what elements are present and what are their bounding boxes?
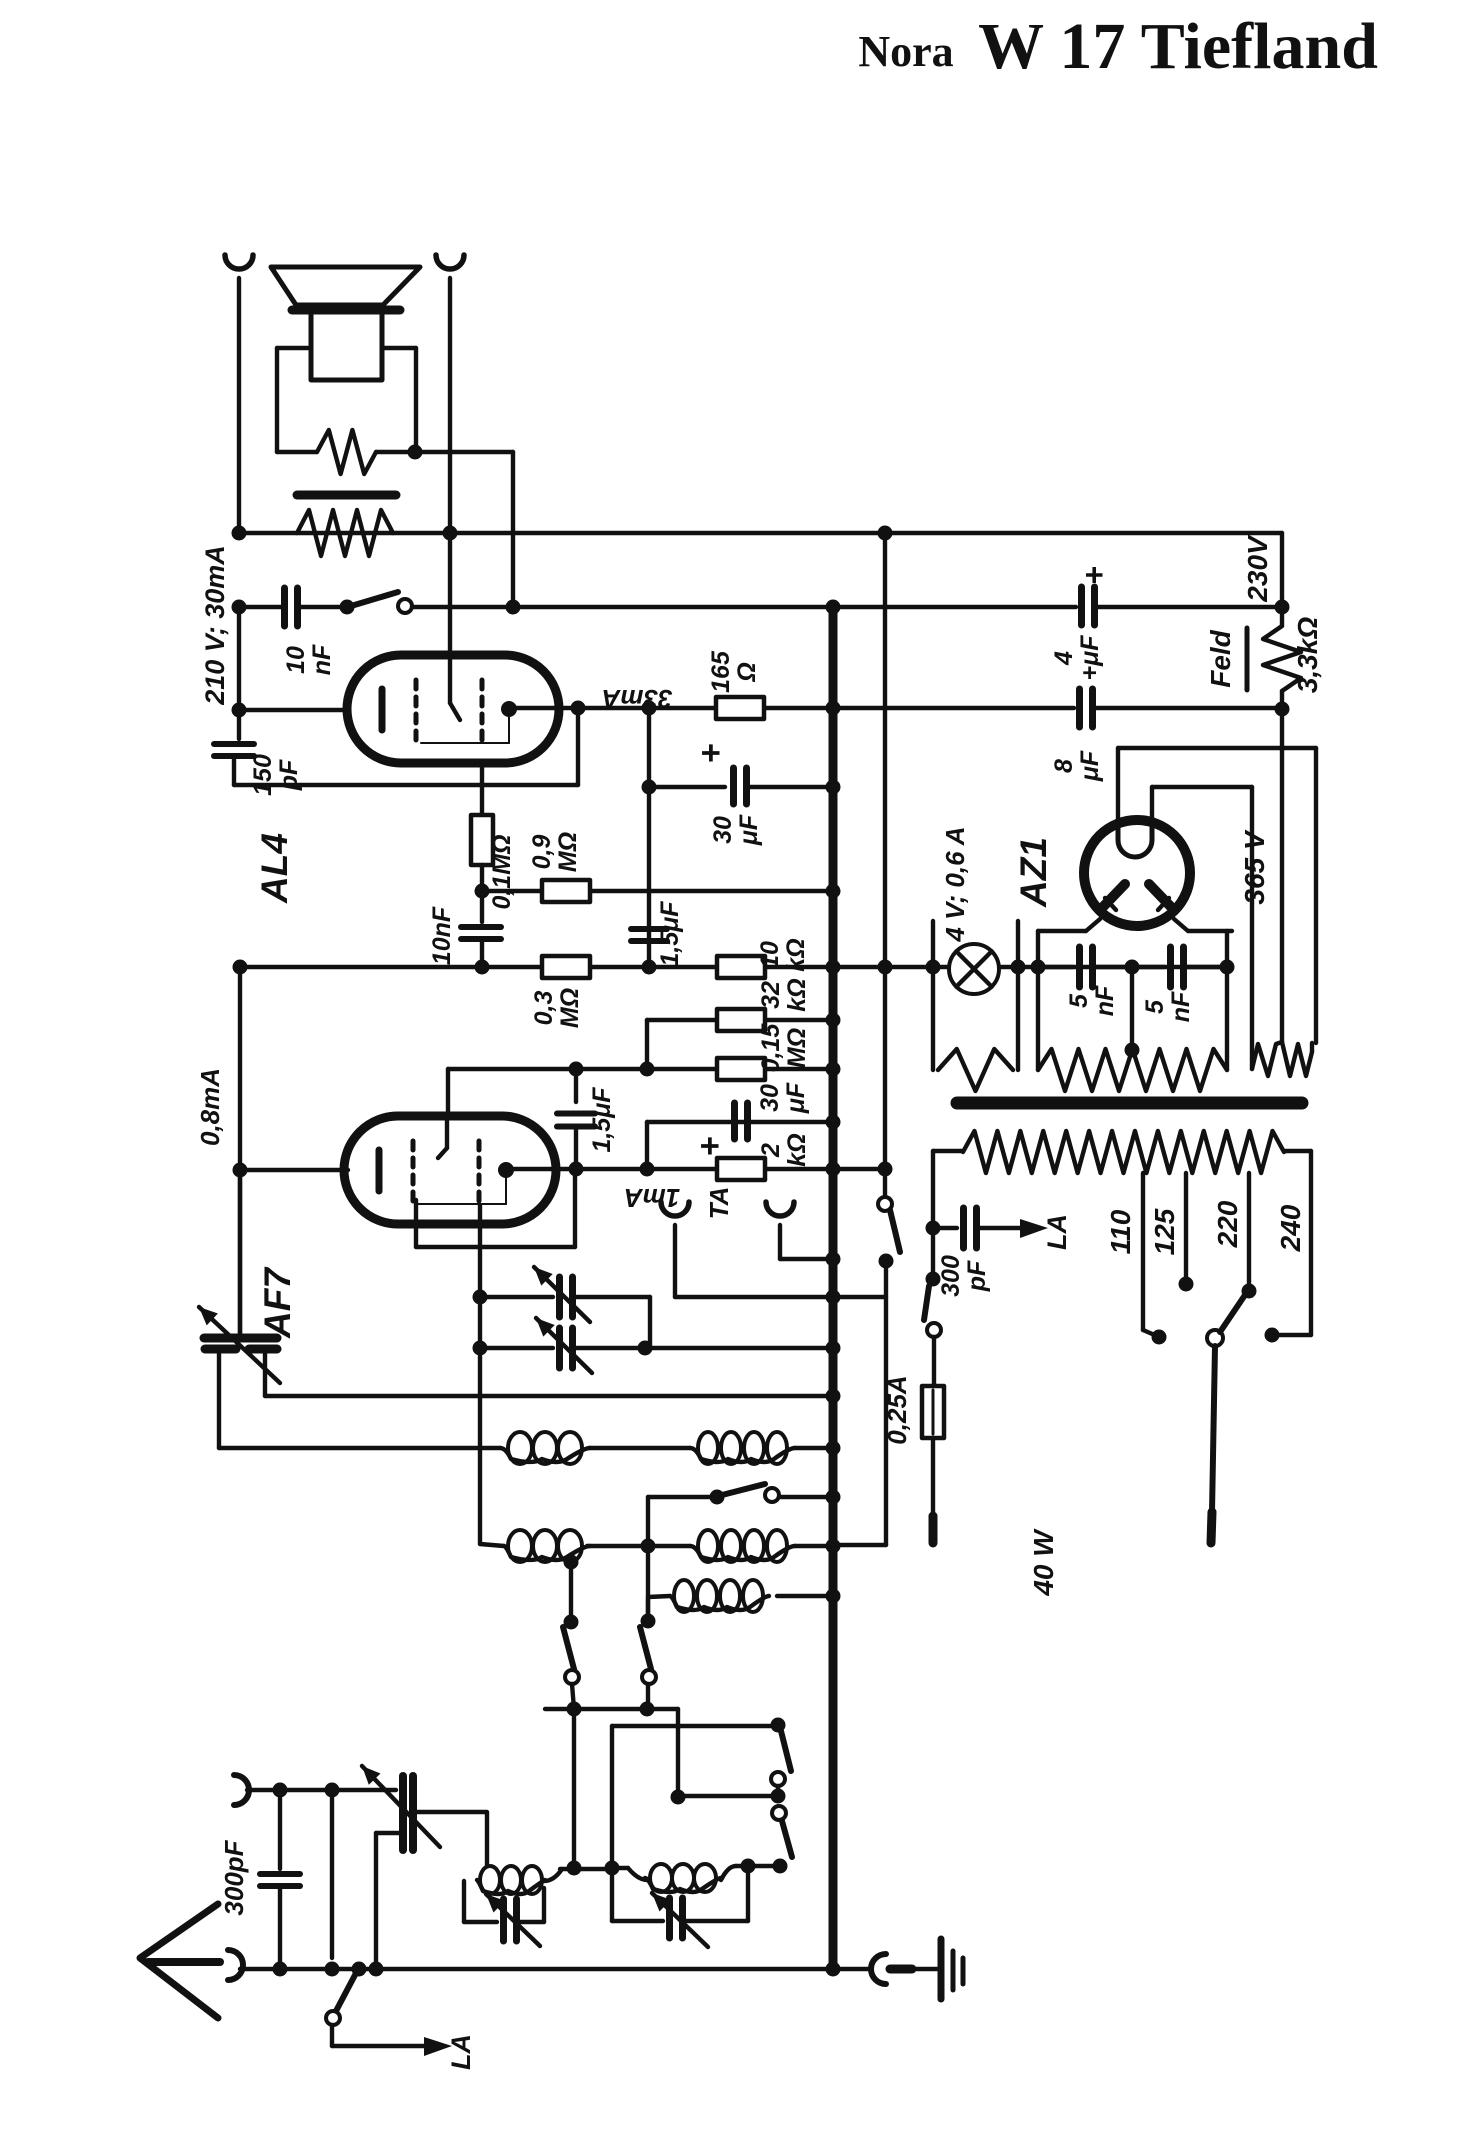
wire 5nF mid drop bbox=[1130, 967, 1134, 1050]
wire cathode rail 365V loop outer bbox=[1118, 746, 1316, 750]
tap 110 bbox=[1141, 1173, 1145, 1330]
resistor field winding (hum coil) bbox=[297, 510, 393, 556]
junction feed lamp bbox=[878, 960, 893, 975]
svg-text:Feld: Feld bbox=[1205, 629, 1236, 687]
wire antenna coil out bbox=[560, 1867, 612, 1871]
wire row2 to bus bbox=[795, 1544, 833, 1548]
junction TA bus bbox=[826, 1252, 841, 1267]
wire box top bbox=[612, 1724, 773, 1728]
junction 150 pF bbox=[232, 600, 247, 615]
tap 125 bbox=[1184, 1173, 1188, 1284]
fuse 0,25 A bbox=[932, 1337, 936, 1386]
AZ1 bracket left bbox=[1036, 931, 1040, 1070]
svg-text:300pF: 300pF bbox=[219, 1839, 249, 1915]
wire 0,15M rail bbox=[448, 1067, 833, 1071]
capacitor 8 uF bbox=[833, 706, 1074, 710]
junction box coil left bbox=[605, 1861, 620, 1876]
bus main chassis bbox=[829, 605, 838, 1969]
lamp bracket left bbox=[931, 921, 935, 1070]
svg-text:30μF: 30μF bbox=[756, 1082, 810, 1114]
wire AZ1 filament up bbox=[1150, 787, 1154, 823]
wire AZ1 cathode up bbox=[1116, 748, 1120, 823]
svg-text:0,9MΩ: 0,9MΩ bbox=[528, 832, 582, 872]
capacitor 5 nF right bbox=[1167, 947, 1174, 987]
junction aerial a bbox=[273, 1783, 288, 1798]
junction lamp left bbox=[926, 960, 941, 975]
ground stub bbox=[890, 1965, 912, 1974]
AZ1 legs bbox=[1086, 919, 1100, 931]
svg-text:+: + bbox=[692, 743, 730, 763]
resistor 32 kOhm bbox=[717, 1009, 765, 1031]
tube AZ1 bbox=[1084, 820, 1190, 926]
wire coil row1 rail bbox=[219, 1446, 500, 1450]
terminal aerial top bbox=[234, 1775, 249, 1805]
junction box coil right bbox=[741, 1859, 756, 1874]
junction lamp right bbox=[1011, 960, 1026, 975]
wire grid rail 0,3M bbox=[240, 965, 833, 969]
arrow LA right bbox=[1020, 1219, 1048, 1238]
junction anode/30uF branch bbox=[642, 701, 657, 716]
ground symbol bbox=[938, 1939, 945, 1999]
trimmer capacitor antenna bbox=[399, 1776, 407, 1850]
capacitor 30 uF (AL4 cathode) bbox=[730, 768, 737, 804]
mains pin left bbox=[929, 1516, 938, 1543]
terminal speaker left bbox=[225, 255, 253, 269]
switch mains (on volume control) bbox=[878, 1197, 892, 1211]
wire AL4 grid bbox=[237, 607, 241, 710]
switch box 2 bbox=[772, 1806, 786, 1820]
svg-text:3,3kΩ: 3,3kΩ bbox=[1292, 617, 1323, 693]
wire feedback to switch line bbox=[415, 450, 513, 454]
svg-text:30μF: 30μF bbox=[709, 814, 763, 846]
junction aerial b bbox=[325, 1783, 340, 1798]
wire row1 mid bbox=[590, 1446, 690, 1450]
junction 8uF bbox=[1275, 702, 1290, 717]
wire feed 885 bbox=[883, 533, 887, 1197]
svg-text:+: + bbox=[1076, 566, 1112, 585]
wire box mid rail bbox=[678, 1794, 778, 1798]
svg-text:0,8mA: 0,8mA bbox=[195, 1068, 225, 1146]
wire antenna ground rail bbox=[240, 1967, 833, 1971]
winding primary bbox=[933, 1149, 963, 1153]
capacitor 10 nF bbox=[281, 588, 288, 626]
junction ground rail c bbox=[369, 1962, 384, 1977]
wire B+ top rail 210V bbox=[239, 531, 1282, 535]
wire 30uF branch bbox=[647, 708, 651, 966]
tap 240 bbox=[1309, 1151, 1313, 1335]
capacitor 30 uF (AF7 anode decoupling) bbox=[731, 1103, 738, 1139]
coil row3 bbox=[646, 1599, 650, 1621]
bus junction 787 bbox=[826, 780, 841, 795]
terminal antenna bbox=[228, 1950, 243, 1980]
antenna coil bbox=[485, 1813, 489, 1866]
wire AF7 grid top lead bbox=[446, 1069, 450, 1116]
svg-text:1,5μF: 1,5μF bbox=[656, 901, 684, 967]
bracket trimmers bbox=[648, 1297, 652, 1348]
bus junction 1020 bbox=[826, 1013, 841, 1028]
capacitor 10 nF (coupling) bbox=[461, 924, 501, 930]
wire 30uF AF7 rail bbox=[647, 1120, 833, 1124]
junction padder top bbox=[473, 1290, 488, 1305]
junction 1,5uF top bbox=[642, 960, 657, 975]
junction 5nF right bbox=[1220, 960, 1235, 975]
wire box coil rail bbox=[612, 1866, 628, 1870]
resistor field 3,3k bbox=[1263, 626, 1301, 691]
junction trimmer rail bus bbox=[826, 1341, 841, 1356]
resistor lamp shunt winding bbox=[938, 1049, 1013, 1091]
wire AF7 grid rail left bbox=[238, 967, 242, 1337]
resistor 0,3 MOhm bbox=[542, 956, 590, 978]
antenna coil trimmer bbox=[462, 1881, 466, 1922]
trimmer capacitor 2 bbox=[556, 1328, 563, 1368]
wire row3 to bus bbox=[777, 1594, 833, 1598]
junction row2 mid bbox=[641, 1539, 656, 1554]
junction 0,15M/32k bbox=[640, 1062, 655, 1077]
bus junction 891 bbox=[826, 884, 841, 899]
svg-text:TA: TA bbox=[704, 1187, 734, 1220]
capacitor 1,5 uF (AF7) bbox=[574, 1069, 578, 1102]
svg-text:40 W: 40 W bbox=[1028, 1528, 1059, 1597]
junction 4uF bbox=[1275, 600, 1290, 615]
winding HV outer small bbox=[1282, 1042, 1312, 1076]
svg-text:4 V; 0,6 A: 4 V; 0,6 A bbox=[940, 826, 970, 942]
resistor 0,9 MOhm bbox=[542, 880, 590, 902]
output transformer frame bbox=[277, 346, 308, 350]
svg-text:Nora: Nora bbox=[858, 27, 953, 76]
AZ1 bracket right bbox=[1225, 931, 1229, 1070]
junction 5nF left bbox=[1031, 960, 1046, 975]
tuning capacitor arrow bbox=[199, 1307, 280, 1383]
junction feed top bbox=[878, 526, 893, 541]
switch antenna bbox=[352, 1962, 367, 1977]
wire filament rail bbox=[1152, 785, 1252, 789]
junction feed switch bbox=[878, 1162, 893, 1177]
wire AF7 cathode hook bbox=[414, 1200, 418, 1247]
junction antenna coil/switch drop bbox=[567, 1861, 582, 1876]
svg-text:0,1MΩ: 0,1MΩ bbox=[488, 834, 516, 909]
svg-text:300pF: 300pF bbox=[937, 1255, 991, 1297]
junction 0,9M bbox=[475, 884, 490, 899]
wire bandswitch row bbox=[648, 1495, 712, 1499]
capacitor 300 pF mains bbox=[933, 1226, 957, 1230]
junction AVC bus bbox=[826, 1389, 841, 1404]
svg-text:125: 125 bbox=[1149, 1208, 1180, 1255]
wire tuning bottom left lead bbox=[217, 1353, 221, 1448]
svg-text:1mA: 1mA bbox=[624, 1183, 680, 1213]
switch box 1 bbox=[771, 1718, 786, 1733]
wire switch drop bbox=[572, 1709, 576, 1868]
wire switch rail bbox=[239, 605, 281, 609]
arrow LA bbox=[424, 2037, 452, 2056]
junction switch rail / feedback bbox=[506, 600, 521, 615]
wire 32k rail bbox=[647, 1018, 833, 1022]
switch band A bbox=[564, 1555, 579, 1570]
bus junction 607 bbox=[826, 600, 841, 615]
wire padder1 bbox=[480, 1295, 553, 1299]
svg-text:220: 220 bbox=[1212, 1200, 1243, 1248]
trimmer capacitor 1 bbox=[556, 1277, 563, 1317]
tap 220 bbox=[1247, 1173, 1251, 1291]
switch tone bbox=[340, 600, 355, 615]
wire antenna trimmer lower tap bbox=[376, 1831, 400, 1835]
wire AL4 anode bbox=[509, 706, 833, 710]
svg-text:210 V; 30mA: 210 V; 30mA bbox=[200, 545, 230, 706]
resistor 10 kOhm bbox=[717, 956, 765, 978]
antenna bbox=[140, 1904, 218, 2018]
wire tuning bottom right lead bbox=[263, 1353, 267, 1396]
coil row1 right bbox=[690, 1448, 795, 1462]
pilot lamp 4V 0,6A bbox=[949, 944, 999, 994]
svg-text:AF7: AF7 bbox=[257, 1266, 298, 1339]
tube AL4 bbox=[347, 655, 559, 763]
coil box bbox=[645, 1878, 721, 1892]
wire TA left rail bbox=[675, 1295, 886, 1299]
wire box coil right bbox=[721, 1866, 736, 1880]
wire heater rail bbox=[833, 965, 1227, 969]
svg-text:AL4: AL4 bbox=[254, 833, 295, 904]
junction 5nF mid bbox=[1125, 960, 1140, 975]
junction padder lower bbox=[473, 1341, 488, 1356]
junction AF7 grid bbox=[233, 1163, 248, 1178]
junction AF7 grid-left corner bbox=[233, 960, 248, 975]
AZ1 anode left bbox=[1100, 884, 1125, 910]
wire antenna trimmer out bbox=[416, 1810, 487, 1814]
svg-text:240: 240 bbox=[1275, 1204, 1306, 1252]
coil row2 right bbox=[690, 1546, 795, 1560]
junction AF7 anode net a bbox=[569, 1162, 584, 1177]
capacitor 150 pF bbox=[237, 710, 241, 739]
wire to box inner bbox=[676, 1709, 680, 1797]
corner 230V bbox=[1280, 533, 1284, 626]
wire tuning top to grid bbox=[238, 1170, 242, 1333]
svg-text:0,3MΩ: 0,3MΩ bbox=[530, 988, 584, 1028]
junction TA rail / bus bbox=[826, 1290, 841, 1305]
capacitor 5 nF left bbox=[1038, 965, 1073, 969]
junction box inner bbox=[671, 1790, 686, 1805]
wire box bottom bbox=[612, 1919, 663, 1923]
svg-text:AZ1: AZ1 bbox=[1013, 837, 1054, 908]
antenna feed stub bbox=[148, 1958, 220, 1966]
svg-text:230V: 230V bbox=[1242, 534, 1273, 603]
switch mains left bbox=[926, 1272, 941, 1287]
switch band 1 bbox=[710, 1490, 725, 1505]
bus junction ground bbox=[826, 1962, 841, 1977]
wire AL4 grid-top from terminal bbox=[448, 533, 452, 655]
junction row2 bus bbox=[826, 1539, 841, 1554]
bus junction 708 bbox=[826, 701, 841, 716]
junction ground rail b bbox=[325, 1962, 340, 1977]
resistor 2 kOhm bbox=[717, 1158, 765, 1180]
wire aerial rail bbox=[247, 1788, 396, 1792]
transformer core bbox=[957, 1097, 1302, 1110]
svg-text:LA: LA bbox=[1042, 1214, 1072, 1250]
terminal speaker right bbox=[436, 255, 464, 269]
svg-text:150pF: 150pF bbox=[249, 754, 303, 796]
wire TA right to bus bbox=[780, 1257, 833, 1261]
resistor 0,15 MOhm bbox=[717, 1058, 765, 1080]
wire feed to bus bottom bbox=[833, 1543, 886, 1547]
junction 300pF mains bbox=[926, 1221, 941, 1236]
svg-text:365 V: 365 V bbox=[1239, 829, 1270, 904]
terminal TA left bbox=[661, 1202, 689, 1216]
junction grid rail left bbox=[475, 960, 490, 975]
wire bus to ground terminal bbox=[833, 1967, 871, 1971]
junction filament winding centre bbox=[1125, 1043, 1140, 1058]
capacitor plate bar bbox=[297, 491, 396, 500]
wire AL4 cathode return bbox=[234, 783, 578, 787]
junction B+ speaker terminal bbox=[443, 526, 458, 541]
junction trimmer bracket bbox=[638, 1341, 653, 1356]
switch voltage selector bbox=[1207, 1330, 1223, 1346]
junction sw B bottom bbox=[640, 1702, 655, 1717]
svg-text:0,15MΩ: 0,15MΩ bbox=[757, 1023, 811, 1073]
wire LA out bbox=[332, 2044, 424, 2048]
bus junction 1069 bbox=[826, 1062, 841, 1077]
capacitor 1,5 uF (AL4) bbox=[631, 926, 667, 932]
junction AF7 anode net b bbox=[640, 1162, 655, 1177]
coil row1 left bbox=[500, 1448, 590, 1462]
wire AVC rail bbox=[265, 1394, 833, 1398]
junction bandswitch bus bbox=[826, 1490, 841, 1505]
winding HV right small bbox=[1280, 691, 1284, 1042]
bus junction 967 bbox=[826, 960, 841, 975]
mains pin right bbox=[1211, 1512, 1212, 1543]
wire row2 left lead bbox=[480, 1544, 504, 1546]
svg-text:1,5μF: 1,5μF bbox=[588, 1087, 616, 1153]
wire 0,9M rail bbox=[482, 889, 833, 893]
svg-text:10kΩ: 10kΩ bbox=[756, 938, 810, 971]
winding heater AZ1 bbox=[1038, 1049, 1227, 1091]
terminal TA right bbox=[766, 1202, 794, 1216]
svg-text:33mA: 33mA bbox=[602, 684, 673, 714]
resistor speaker voice-coil shunt bbox=[317, 430, 376, 474]
lamp bracket right bbox=[1016, 921, 1020, 1070]
switch band B bbox=[641, 1614, 656, 1629]
wire mains left bbox=[931, 1151, 935, 1279]
junction ground rail a bbox=[273, 1962, 288, 1977]
terminal ground hook bbox=[871, 1954, 886, 1984]
svg-text:10nF: 10nF bbox=[282, 644, 336, 675]
speaker magnet bbox=[311, 313, 382, 380]
junction AL4 grid bbox=[232, 703, 247, 718]
junction speaker/feedback bbox=[408, 445, 423, 460]
junction row3 bus bbox=[826, 1589, 841, 1604]
bus junction 1169 bbox=[826, 1162, 841, 1177]
capacitor 300 pF antenna bbox=[278, 1790, 282, 1869]
junction anode/cathode-net bbox=[571, 701, 586, 716]
wire row1 to bus bbox=[795, 1446, 833, 1450]
svg-text:0,25A: 0,25A bbox=[882, 1375, 912, 1444]
junction B+ left bbox=[232, 526, 247, 541]
capacitor 4 uF bbox=[833, 605, 1076, 609]
wire aerial b drop bbox=[330, 1790, 334, 1958]
junction 30uF wire bbox=[642, 780, 657, 795]
svg-text:LA: LA bbox=[446, 2034, 476, 2070]
wire AF7 g2 lead down bbox=[478, 1205, 482, 1544]
wire AF7 anode bbox=[508, 1167, 833, 1171]
tube AF7 bbox=[344, 1116, 556, 1224]
svg-text:W 17 Tiefland: W 17 Tiefland bbox=[978, 10, 1378, 83]
AZ1 anode right bbox=[1149, 884, 1174, 910]
wire box left edge bbox=[610, 1726, 614, 1921]
junction sw A bottom bbox=[567, 1702, 582, 1717]
coil row2 left bbox=[504, 1546, 590, 1560]
wire switch bottom rail bbox=[545, 1707, 678, 1711]
AZ1 filament notch bbox=[1118, 823, 1152, 857]
svg-text:110: 110 bbox=[1105, 1209, 1136, 1254]
tuning capacitor (gang) plates bbox=[204, 1334, 277, 1343]
resistor 165 Ohm bbox=[716, 697, 764, 719]
bus junction 1122 bbox=[826, 1115, 841, 1130]
wire padder2 bbox=[480, 1346, 553, 1350]
junction row1 bus bbox=[826, 1441, 841, 1456]
wire box right drop bbox=[746, 1866, 750, 1921]
resistor 0,1 MOhm bbox=[480, 762, 484, 815]
loudspeaker cone bbox=[271, 267, 420, 305]
svg-text:32kΩ: 32kΩ bbox=[757, 978, 811, 1011]
wire row2 mid bbox=[587, 1544, 690, 1548]
junction 0,15M/1,5uF bbox=[569, 1062, 584, 1077]
svg-text:10nF: 10nF bbox=[428, 906, 456, 965]
trimmer capacitor box bbox=[666, 1898, 673, 1938]
svg-text:+: + bbox=[691, 1136, 729, 1156]
